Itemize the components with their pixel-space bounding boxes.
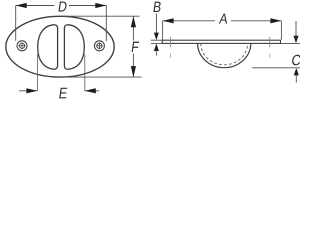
dimension C up arrowhead [294, 68, 299, 76]
oval base plate (front view) [6, 16, 114, 77]
side view left screw centerline [170, 37, 172, 47]
dimension E right tail line [85, 90, 99, 92]
label E [59, 88, 67, 99]
dimension F bottom arrowhead [131, 66, 136, 77]
dimension F top arrowhead [131, 16, 136, 27]
label C [292, 55, 302, 66]
dimension C lower tail line [295, 74, 297, 82]
side view dome inner hidden arc (dashed) [201, 43, 248, 64]
dimension C bottom extension line [252, 67, 300, 69]
dome right lobe (front view) [64, 25, 84, 69]
dimension B top extension stub [151, 39, 162, 41]
dimension D left arrowhead [16, 3, 27, 8]
dimension A right extension line [280, 21, 282, 40]
dimension F top extension line [60, 15, 140, 17]
dimension D extension line left [15, 6, 17, 41]
dimension C down arrowhead [294, 36, 299, 44]
label F [132, 42, 139, 52]
label A [219, 14, 229, 24]
side view dome outer arc [198, 43, 251, 67]
dimension A line [163, 20, 215, 22]
dimension E left tail line [19, 90, 37, 92]
left screw head [17, 41, 27, 51]
dimension C upper tail line [295, 21, 297, 37]
label B [153, 2, 161, 12]
label D [58, 2, 67, 12]
right screw head [94, 41, 104, 51]
dimension D extension line right [105, 6, 107, 42]
dome left lobe (front view) [38, 25, 58, 69]
dimension F bottom extension line [60, 76, 142, 78]
dimension A right arrowhead [270, 18, 281, 23]
dimension A left extension line [162, 21, 164, 40]
dimension D line [16, 5, 55, 7]
dimension E right arrowhead [85, 88, 96, 93]
dimension C top extension line [281, 42, 300, 44]
dimension B up arrowhead [154, 44, 159, 52]
side view right screw centerline [269, 37, 271, 47]
dimension B lower tail line [155, 50, 157, 56]
dimension B bottom extension stub [151, 42, 162, 44]
dimension E extension line left [36, 54, 38, 91]
side view base plate [162, 40, 280, 43]
dimension D right arrowhead [95, 3, 106, 8]
dimension E left arrowhead [26, 88, 37, 93]
dimension A left arrowhead [163, 18, 174, 23]
dimension E extension line right [84, 54, 86, 91]
dimension B down arrowhead [154, 33, 159, 41]
dimension F line [132, 16, 134, 40]
dimension B upper leader line [155, 14, 157, 34]
